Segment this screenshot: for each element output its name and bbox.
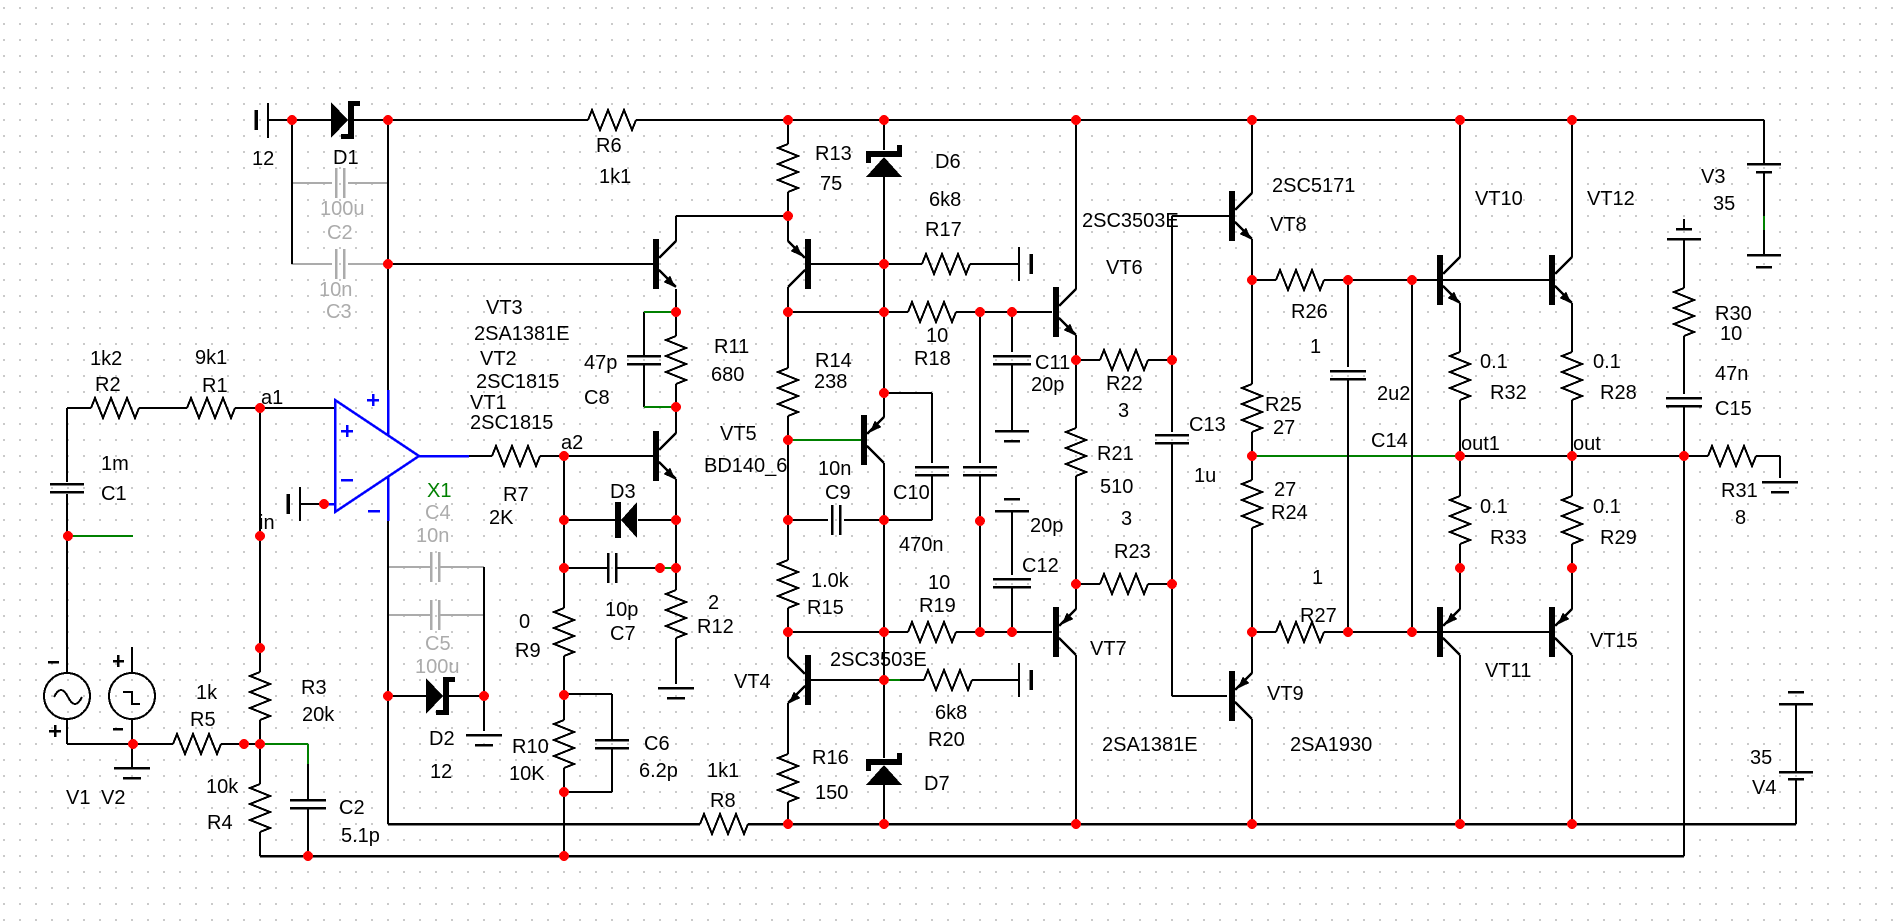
svg-text:75: 75 bbox=[820, 173, 842, 195]
svg-text:10: 10 bbox=[1720, 323, 1742, 345]
svg-text:VT11: VT11 bbox=[1485, 660, 1531, 682]
svg-text:10: 10 bbox=[926, 325, 948, 347]
svg-text:R4: R4 bbox=[207, 812, 233, 834]
svg-text:C15: C15 bbox=[1715, 398, 1752, 420]
svg-text:C7: C7 bbox=[610, 623, 636, 645]
svg-text:VT5: VT5 bbox=[720, 423, 757, 445]
svg-text:100u: 100u bbox=[320, 198, 365, 220]
svg-text:C9: C9 bbox=[825, 482, 851, 504]
svg-text:VT15: VT15 bbox=[1590, 630, 1638, 652]
svg-text:20p: 20p bbox=[1031, 374, 1064, 396]
svg-text:47n: 47n bbox=[1715, 363, 1748, 385]
svg-text:R29: R29 bbox=[1600, 527, 1637, 549]
svg-text:R33: R33 bbox=[1490, 527, 1527, 549]
svg-text:2SA1381E: 2SA1381E bbox=[474, 323, 570, 345]
svg-text:10n: 10n bbox=[416, 525, 449, 547]
svg-text:6k8: 6k8 bbox=[929, 189, 961, 211]
svg-text:1u: 1u bbox=[1194, 465, 1216, 487]
svg-text:D1: D1 bbox=[333, 147, 359, 169]
svg-text:out: out bbox=[1573, 433, 1601, 455]
svg-text:12: 12 bbox=[252, 148, 274, 170]
svg-text:680: 680 bbox=[711, 364, 744, 386]
svg-text:R8: R8 bbox=[710, 790, 736, 812]
svg-text:R22: R22 bbox=[1106, 373, 1143, 395]
svg-text:R26: R26 bbox=[1291, 301, 1328, 323]
svg-text:10: 10 bbox=[928, 572, 950, 594]
svg-text:27: 27 bbox=[1273, 417, 1295, 439]
svg-text:C5: C5 bbox=[425, 633, 451, 655]
svg-text:D7: D7 bbox=[924, 773, 950, 795]
svg-text:R23: R23 bbox=[1114, 541, 1151, 563]
svg-text:C2: C2 bbox=[327, 222, 353, 244]
svg-text:X1: X1 bbox=[427, 480, 451, 502]
svg-text:5.1p: 5.1p bbox=[341, 825, 380, 847]
svg-text:R3: R3 bbox=[301, 677, 327, 699]
svg-text:9k1: 9k1 bbox=[195, 347, 227, 369]
svg-text:150: 150 bbox=[815, 782, 848, 804]
svg-text:2K: 2K bbox=[489, 507, 514, 529]
svg-text:0.1: 0.1 bbox=[1480, 351, 1508, 373]
svg-text:a2: a2 bbox=[561, 432, 583, 454]
svg-text:VT1: VT1 bbox=[470, 392, 507, 414]
svg-text:0: 0 bbox=[519, 611, 530, 633]
svg-text:2SC1815: 2SC1815 bbox=[476, 371, 559, 393]
svg-text:470n: 470n bbox=[899, 534, 944, 556]
svg-text:D3: D3 bbox=[610, 481, 636, 503]
svg-text:C4: C4 bbox=[425, 502, 451, 524]
svg-text:VT7: VT7 bbox=[1090, 638, 1127, 660]
svg-text:2SC3503E: 2SC3503E bbox=[1082, 210, 1179, 232]
svg-text:R7: R7 bbox=[503, 484, 529, 506]
svg-text:R11: R11 bbox=[714, 336, 749, 358]
svg-text:3: 3 bbox=[1121, 508, 1132, 530]
svg-text:a1: a1 bbox=[261, 387, 283, 409]
svg-text:VT9: VT9 bbox=[1267, 683, 1304, 705]
svg-text:1: 1 bbox=[1310, 336, 1321, 358]
svg-text:2SA1381E: 2SA1381E bbox=[1102, 734, 1198, 756]
svg-text:C2: C2 bbox=[339, 797, 365, 819]
svg-text:47p: 47p bbox=[584, 352, 617, 374]
svg-text:VT10: VT10 bbox=[1475, 188, 1523, 210]
svg-text:R5: R5 bbox=[190, 709, 216, 731]
svg-text:D6: D6 bbox=[935, 151, 961, 173]
svg-text:6k8: 6k8 bbox=[935, 702, 967, 724]
svg-text:C11: C11 bbox=[1035, 352, 1070, 374]
svg-text:10p: 10p bbox=[605, 599, 638, 621]
svg-text:27: 27 bbox=[1274, 479, 1296, 501]
svg-text:C14: C14 bbox=[1371, 430, 1408, 452]
svg-text:BD140_6: BD140_6 bbox=[704, 455, 787, 477]
svg-text:0.1: 0.1 bbox=[1593, 351, 1621, 373]
svg-text:R13: R13 bbox=[815, 143, 852, 165]
svg-text:D2: D2 bbox=[429, 728, 455, 750]
svg-text:R32: R32 bbox=[1490, 382, 1527, 404]
svg-text:V4: V4 bbox=[1752, 777, 1776, 799]
svg-text:R18: R18 bbox=[914, 348, 951, 370]
svg-text:VT3: VT3 bbox=[486, 297, 523, 319]
svg-text:2SC1815: 2SC1815 bbox=[470, 412, 553, 434]
svg-text:R30: R30 bbox=[1715, 303, 1752, 325]
svg-text:VT2: VT2 bbox=[480, 348, 517, 370]
svg-text:R14: R14 bbox=[815, 350, 852, 372]
svg-text:R19: R19 bbox=[919, 595, 956, 617]
svg-text:2SC3503E: 2SC3503E bbox=[830, 649, 927, 671]
svg-text:V3: V3 bbox=[1701, 166, 1725, 188]
svg-text:R24: R24 bbox=[1271, 502, 1308, 524]
svg-text:2SC5171: 2SC5171 bbox=[1272, 175, 1355, 197]
svg-text:C1: C1 bbox=[101, 483, 127, 505]
svg-text:C10: C10 bbox=[893, 482, 930, 504]
svg-text:R28: R28 bbox=[1600, 382, 1637, 404]
svg-text:R15: R15 bbox=[807, 597, 844, 619]
svg-text:100u: 100u bbox=[415, 656, 460, 678]
svg-text:8: 8 bbox=[1735, 507, 1746, 529]
svg-text:10k: 10k bbox=[206, 776, 239, 798]
svg-text:2: 2 bbox=[708, 592, 719, 614]
svg-text:12: 12 bbox=[430, 761, 452, 783]
svg-text:R31: R31 bbox=[1721, 480, 1758, 502]
svg-text:6.2p: 6.2p bbox=[639, 760, 678, 782]
svg-text:R27: R27 bbox=[1300, 605, 1337, 627]
svg-text:1.0k: 1.0k bbox=[811, 570, 850, 592]
svg-text:20k: 20k bbox=[302, 704, 335, 726]
svg-text:10n: 10n bbox=[818, 458, 851, 480]
svg-text:0.1: 0.1 bbox=[1480, 496, 1508, 518]
svg-text:0.1: 0.1 bbox=[1593, 496, 1621, 518]
svg-text:R20: R20 bbox=[928, 729, 965, 751]
svg-text:1m: 1m bbox=[101, 453, 129, 475]
svg-text:in: in bbox=[259, 512, 275, 534]
svg-text:R12: R12 bbox=[697, 616, 734, 638]
svg-text:R2: R2 bbox=[95, 374, 121, 396]
svg-text:2u2: 2u2 bbox=[1377, 383, 1410, 405]
svg-text:1k1: 1k1 bbox=[599, 166, 631, 188]
svg-text:1: 1 bbox=[1312, 567, 1323, 589]
svg-text:out1: out1 bbox=[1461, 433, 1500, 455]
svg-text:35: 35 bbox=[1713, 193, 1735, 215]
svg-text:20p: 20p bbox=[1030, 515, 1063, 537]
svg-text:C6: C6 bbox=[644, 733, 670, 755]
svg-text:1k1: 1k1 bbox=[707, 760, 739, 782]
svg-text:R10: R10 bbox=[512, 736, 549, 758]
svg-text:10n: 10n bbox=[319, 279, 352, 301]
svg-text:R6: R6 bbox=[596, 135, 622, 157]
svg-text:V2: V2 bbox=[101, 787, 125, 809]
svg-text:R16: R16 bbox=[812, 747, 849, 769]
svg-text:C3: C3 bbox=[326, 301, 352, 323]
svg-text:R25: R25 bbox=[1265, 394, 1302, 416]
svg-text:10K: 10K bbox=[509, 763, 545, 785]
svg-text:35: 35 bbox=[1750, 747, 1772, 769]
svg-text:2SA1930: 2SA1930 bbox=[1290, 734, 1372, 756]
svg-text:3: 3 bbox=[1118, 400, 1129, 422]
svg-text:R21: R21 bbox=[1097, 443, 1134, 465]
svg-text:VT4: VT4 bbox=[734, 671, 771, 693]
svg-text:VT8: VT8 bbox=[1270, 214, 1307, 236]
svg-text:1k2: 1k2 bbox=[90, 348, 122, 370]
svg-text:510: 510 bbox=[1100, 476, 1133, 498]
svg-text:VT6: VT6 bbox=[1106, 257, 1143, 279]
svg-text:R9: R9 bbox=[515, 640, 541, 662]
svg-text:238: 238 bbox=[814, 371, 847, 393]
svg-text:C12: C12 bbox=[1022, 555, 1059, 577]
svg-text:V1: V1 bbox=[66, 787, 90, 809]
svg-text:VT12: VT12 bbox=[1587, 188, 1635, 210]
svg-text:R17: R17 bbox=[925, 219, 962, 241]
svg-text:C8: C8 bbox=[584, 387, 610, 409]
svg-text:1k: 1k bbox=[196, 682, 218, 704]
svg-text:C13: C13 bbox=[1189, 414, 1226, 436]
svg-text:R1: R1 bbox=[202, 375, 228, 397]
